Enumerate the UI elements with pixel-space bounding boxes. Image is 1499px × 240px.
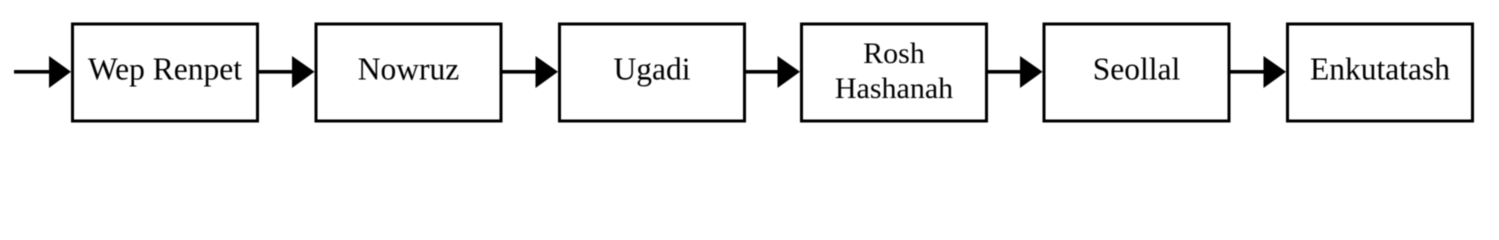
node Seollal — [1044, 24, 1229, 121]
svg-text:Rosh: Rosh — [863, 37, 925, 70]
node Nowruz — [316, 24, 501, 121]
arrow Rosh Hashanah to Seollal — [986, 56, 1043, 88]
arrow into Wep Renpet — [14, 56, 71, 88]
svg-text:Ugadi: Ugadi — [614, 52, 691, 87]
node Ugadi — [560, 24, 745, 121]
svg-text:Nowruz: Nowruz — [358, 52, 459, 87]
arrow Ugadi to Rosh Hashanah — [744, 56, 800, 88]
svg-text:Enkutatash: Enkutatash — [1310, 52, 1450, 87]
node Wep Renpet — [73, 24, 258, 121]
arrow Seollal to Enkutatash — [1230, 56, 1287, 88]
arrow Wep Renpet to Nowruz — [258, 56, 315, 88]
arrow Nowruz to Ugadi — [502, 56, 559, 88]
node Rosh Hashanah — [802, 24, 987, 121]
svg-text:Hashanah: Hashanah — [835, 72, 953, 105]
node Enkutatash — [1288, 24, 1473, 121]
svg-text:Seollal: Seollal — [1093, 52, 1181, 87]
svg-text:Wep Renpet: Wep Renpet — [88, 52, 242, 87]
